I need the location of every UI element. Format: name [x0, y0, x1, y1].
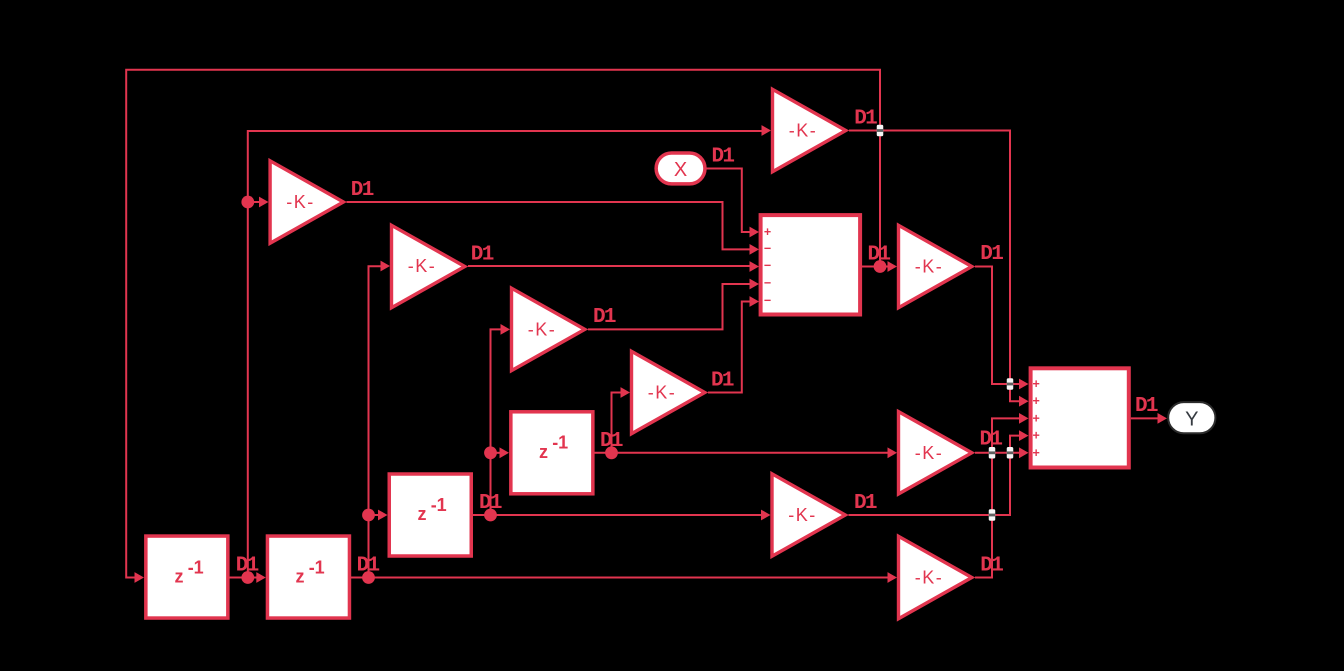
svg-text:-K-: -K-	[915, 257, 944, 277]
arrow into top gain GT	[762, 125, 772, 136]
wire: gain G1 output to sum S1 input 2	[347, 202, 751, 249]
gain G5	[899, 225, 972, 307]
wire: gain G2 output to sum S1 input 3	[468, 265, 750, 267]
svg-text:−: −	[764, 242, 771, 256]
delay Z4	[511, 412, 593, 494]
svg-text:−: −	[764, 294, 771, 308]
arrowheads into blocks	[135, 125, 1168, 583]
wire: gain G7 output to sum S2 input 4	[849, 436, 1021, 515]
wire: delay Z4 output to gain G6 input	[594, 452, 888, 454]
svg-text:+: +	[1033, 429, 1040, 443]
sum S2	[1031, 368, 1129, 467]
svg-text:−: −	[764, 259, 771, 273]
wire: sum S1 output to gain G5 input	[862, 266, 888, 268]
delay Z1	[146, 536, 228, 618]
arrow into delay Z4	[500, 447, 510, 458]
junction dot: delay Z4 input tap	[484, 446, 497, 459]
svg-text:-K-: -K-	[788, 505, 817, 525]
svg-text:D1: D1	[1135, 395, 1158, 418]
arrow into gain G1	[259, 197, 269, 208]
arrow into gain G3	[501, 324, 511, 335]
svg-text:D1: D1	[868, 243, 891, 266]
gain G1	[270, 161, 343, 243]
crossing marker M2 at (1009,383.5)	[1007, 378, 1014, 390]
wire: gain G8 output to sum S2 input 3	[975, 418, 1020, 577]
svg-text:z: z	[539, 442, 548, 462]
arrow into gain G8	[888, 572, 898, 583]
crossing marker M4 at (1010,453.3)	[1007, 447, 1014, 459]
svg-text:z: z	[296, 567, 305, 587]
svg-text:-K-: -K-	[648, 383, 677, 403]
svg-text:D1: D1	[711, 369, 734, 392]
arrow into gain G6	[888, 447, 898, 458]
svg-text:-1: -1	[188, 557, 204, 577]
junction dot: delay Z1 output node	[241, 571, 254, 584]
svg-text:D1: D1	[236, 554, 259, 577]
svg-text:D1: D1	[980, 429, 1003, 452]
svg-text:D1: D1	[854, 492, 877, 515]
svg-text:-1: -1	[309, 557, 325, 577]
svg-text:D1: D1	[593, 306, 616, 329]
svg-text:-1: -1	[431, 495, 447, 515]
svg-text:D1: D1	[600, 430, 623, 453]
svg-text:D1: D1	[351, 179, 374, 202]
wire: gain G6 output to sum S2 input 5	[975, 452, 1020, 454]
source X oval	[656, 153, 705, 184]
wire: gain G4 output to sum S1 input 5	[708, 302, 750, 393]
junction dot: delay Z2 output node	[362, 571, 375, 584]
svg-text:D1: D1	[357, 554, 380, 577]
gain G6	[899, 412, 972, 494]
wire: delay Z1 output to delay Z2 input	[229, 577, 257, 579]
svg-text:z: z	[418, 504, 427, 524]
svg-text:D1: D1	[980, 554, 1003, 577]
arrow into delay Z3	[378, 510, 388, 521]
gain G3	[512, 288, 585, 370]
wire: delay Z2 output to gain G8 input	[350, 577, 888, 579]
junction dot: delay Z4 output node	[605, 446, 618, 459]
wire: source X output to sum S1 input 1	[707, 169, 751, 233]
gain G7	[772, 474, 845, 556]
wire: tap to delay Z4 input	[491, 452, 501, 454]
arrows into sum S2 inputs	[1019, 379, 1029, 390]
crossing marker M3 at (992,453.3)	[989, 447, 996, 459]
svg-text:-K-: -K-	[286, 192, 315, 212]
arrow into gain G2	[381, 261, 391, 272]
top gain GT	[773, 89, 846, 171]
svg-text:-K-: -K-	[915, 443, 944, 463]
sink Y oval	[1168, 402, 1215, 433]
svg-text:z: z	[175, 567, 184, 587]
svg-text:-1: -1	[552, 433, 568, 453]
arrow into delay Z1	[135, 572, 145, 583]
svg-text:-K-: -K-	[789, 121, 818, 141]
junction dot: sum S1 output node	[874, 260, 887, 273]
arrow into gain G4	[621, 387, 631, 398]
wire: sum S2 output to sink Y	[1131, 417, 1158, 419]
svg-text:+: +	[1033, 377, 1040, 391]
svg-text:-K-: -K-	[408, 256, 437, 276]
wire: feedback loop from sum S1 output up-left-down to delay Z1 input	[126, 70, 880, 578]
wire: delay Z2 output up to gain G2 input	[369, 266, 382, 577]
wire: gain G3 output to sum S1 input 4	[588, 284, 750, 329]
svg-text:-K-: -K-	[915, 568, 944, 588]
svg-text:D1: D1	[471, 243, 494, 266]
svg-text:+: +	[764, 225, 771, 239]
wire: tap to gain G1 input	[248, 201, 260, 203]
wire: tap to delay Z3 input	[369, 514, 380, 516]
gain G4	[632, 351, 705, 433]
sum S1	[761, 215, 861, 314]
arrow into sink Y	[1158, 413, 1168, 424]
wire: top gain GT output to sum S2 input 2	[849, 131, 1020, 402]
delay Z3	[389, 474, 471, 556]
arrow into gain G5	[888, 261, 898, 272]
gain G2	[392, 225, 465, 307]
arrow into gain G7	[761, 510, 771, 521]
svg-text:D1: D1	[712, 145, 735, 168]
wire: delay Z4 output up to gain G4 input	[612, 393, 622, 453]
wire: delay Z1 output up to top gain GT input	[248, 131, 763, 578]
svg-text:+: +	[1033, 411, 1040, 425]
wire: gain G5 output to sum S2 input 1	[975, 267, 1020, 385]
svg-text:D1: D1	[980, 243, 1003, 266]
delay Z2	[267, 536, 349, 618]
arrows into sum S1 inputs	[750, 227, 760, 238]
crossing marker M1 at (880,130.5)	[877, 125, 884, 137]
arrow into delay Z2	[256, 572, 266, 583]
svg-text:+: +	[1033, 394, 1040, 408]
svg-text:−: −	[764, 276, 771, 290]
junction dot: delay Z3 input tap	[362, 509, 375, 522]
svg-text:D1: D1	[479, 492, 502, 515]
wire: delay Z3 output up to gain G3 input	[491, 329, 502, 515]
svg-text:X: X	[674, 159, 687, 181]
svg-text:-K-: -K-	[528, 319, 557, 339]
junction dot: delay Z3 output node	[484, 509, 497, 522]
svg-text:+: +	[1033, 446, 1040, 460]
svg-text:Y: Y	[1185, 409, 1198, 431]
wire: delay Z3 output to gain G7 input	[473, 514, 763, 516]
junction dot: gain G1 input tap	[241, 196, 254, 209]
crossing marker M5 at (992,515)	[989, 509, 996, 521]
gain G8	[899, 536, 972, 618]
svg-text:D1: D1	[854, 107, 877, 130]
